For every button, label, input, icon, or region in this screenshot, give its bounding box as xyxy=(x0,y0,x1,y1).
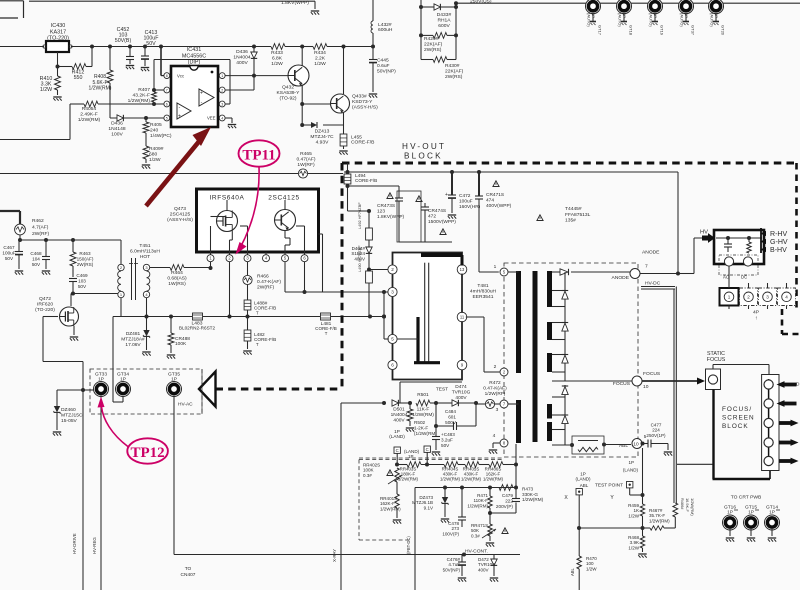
capacitor C476 xyxy=(443,555,467,582)
svg-text:1/2W: 1/2W xyxy=(628,545,639,550)
resistor R466b xyxy=(673,498,695,528)
svg-text:0.68(AS): 0.68(AS) xyxy=(167,276,187,282)
transformer T451 label xyxy=(130,243,160,260)
svg-text:CR471S: CR471S xyxy=(486,192,504,198)
svg-text:50V: 50V xyxy=(5,256,14,261)
abl parallel RC xyxy=(552,436,631,454)
flyback diode D4 xyxy=(562,386,568,395)
wire IC430 adj pin xyxy=(56,52,60,69)
flyback primary bar2 xyxy=(516,400,521,443)
wire focus tap xyxy=(552,380,632,382)
svg-text:CORE-F/B: CORE-F/B xyxy=(351,140,375,146)
capacitor C468 xyxy=(30,240,50,275)
svg-text:2: 2 xyxy=(747,294,750,299)
test point box xyxy=(595,482,645,498)
wire Q432 emitter xyxy=(300,86,304,107)
svg-text:MTZJ18A#: MTZJ18A# xyxy=(121,336,145,342)
resistor RR406S xyxy=(483,462,516,482)
svg-text:1/2W: 1/2W xyxy=(586,566,597,571)
capacitor C467 xyxy=(2,240,23,275)
wire pin11 tap xyxy=(466,317,500,372)
svg-text:CN407: CN407 xyxy=(181,572,196,578)
svg-text:2W(RS): 2W(RS) xyxy=(424,47,442,53)
wire abl node xyxy=(642,448,644,504)
op-amp U1A xyxy=(177,103,191,120)
IC431 pin 5 xyxy=(164,115,170,121)
svg-text:4.93V: 4.93V xyxy=(316,140,330,146)
svg-text:FOCUS: FOCUS xyxy=(707,357,726,363)
svg-text:T: T xyxy=(256,342,259,347)
svg-text:400V: 400V xyxy=(236,60,248,66)
svg-text:(LAND): (LAND) xyxy=(575,477,591,482)
capacitor C478 xyxy=(442,488,466,537)
flyback diode D3 xyxy=(562,355,568,364)
svg-text:7: 7 xyxy=(166,88,168,92)
resistor RR404S xyxy=(440,462,465,482)
wire pin1 net xyxy=(225,74,256,90)
svg-text:1-2K-F: 1-2K-F xyxy=(414,425,428,430)
svg-text:R4054: R4054 xyxy=(82,106,97,112)
op-amp U1B xyxy=(199,89,214,106)
IC431 pin 1 xyxy=(219,73,225,79)
connector GT14 xyxy=(765,505,781,542)
svg-text:250V(US): 250V(US) xyxy=(470,0,492,5)
svg-text:550: 550 xyxy=(74,75,83,81)
fusible resistor R472 xyxy=(476,380,507,413)
svg-text:Q432: Q432 xyxy=(282,85,294,91)
svg-text:R434: R434 xyxy=(314,50,326,56)
svg-text:1/2W: 1/2W xyxy=(314,61,326,67)
svg-text:1/2W: 1/2W xyxy=(628,513,639,518)
svg-text:500V: 500V xyxy=(445,420,457,425)
svg-text:1N4004: 1N4004 xyxy=(391,412,408,418)
connector GT19 xyxy=(648,0,665,36)
svg-text:+: + xyxy=(200,91,203,97)
svg-text:50V: 50V xyxy=(441,443,450,448)
svg-text:GT18: GT18 xyxy=(629,25,634,36)
svg-text:C467: C467 xyxy=(3,245,15,250)
svg-text:R429#: R429# xyxy=(424,36,439,42)
resistor R471 xyxy=(467,488,492,516)
svg-text:2: 2 xyxy=(494,364,497,370)
inductor L490 xyxy=(357,245,372,317)
diode D472 xyxy=(478,555,498,582)
capacitor C452 xyxy=(115,27,134,69)
svg-text:R463: R463 xyxy=(79,251,91,256)
svg-text:1/2W(RM): 1/2W(RM) xyxy=(89,86,112,92)
wire pin2 down xyxy=(229,262,231,317)
variable resistor RR471S xyxy=(471,513,496,547)
svg-text:L492 HF70ZBF: L492 HF70ZBF xyxy=(357,202,362,229)
IC431 pin 6 xyxy=(164,101,170,107)
svg-text:TEST: TEST xyxy=(436,387,448,393)
wire HV-DC xyxy=(641,281,676,504)
flyback diode top xyxy=(552,269,630,275)
dashed border bottom-left xyxy=(216,388,343,391)
svg-text:RH1A: RH1A xyxy=(437,18,451,24)
svg-text:0.47(AF): 0.47(AF) xyxy=(296,157,315,163)
svg-text:GT37: GT37 xyxy=(691,25,696,36)
wire Q432 collector xyxy=(300,45,304,66)
wire L492 column xyxy=(348,209,372,213)
4P pin 1 xyxy=(724,292,734,302)
svg-text:1N4004: 1N4004 xyxy=(233,55,250,61)
IC431 pin 7 xyxy=(164,87,170,93)
svg-text:8: 8 xyxy=(166,74,168,78)
svg-text:KSA539-Y: KSA539-Y xyxy=(277,90,301,96)
inductor L483 xyxy=(179,313,216,331)
wire pin6 net xyxy=(98,103,164,105)
drive transformer box xyxy=(393,253,463,380)
svg-text:1/2W(RM): 1/2W(RM) xyxy=(78,117,101,123)
drive pin 11 xyxy=(457,312,467,322)
callout TP11 arrow xyxy=(236,167,260,255)
drive pin 9 xyxy=(457,360,467,370)
svg-text:474: 474 xyxy=(486,197,494,203)
svg-text:TP11: TP11 xyxy=(242,148,275,164)
wire Q472 gate xyxy=(43,317,85,393)
svg-text:0.47-K(AF): 0.47-K(AF) xyxy=(257,279,281,285)
svg-text:MTZJ4-7C: MTZJ4-7C xyxy=(310,134,334,140)
warning triangle rr471 xyxy=(502,528,508,534)
svg-text:C479: C479 xyxy=(502,493,514,498)
svg-text:103: 103 xyxy=(78,278,86,283)
svg-text:R433: R433 xyxy=(271,50,283,56)
zener DZ413 xyxy=(302,104,343,146)
4P pin 2 xyxy=(744,292,754,302)
svg-text:1W(RS): 1W(RS) xyxy=(168,281,186,287)
svg-text:3: 3 xyxy=(496,407,499,413)
svg-text:250V(1P): 250V(1P) xyxy=(646,433,666,438)
diode D501 xyxy=(391,400,412,423)
wire pin7 to winding xyxy=(508,403,519,405)
svg-text:FOCUS: FOCUS xyxy=(643,371,661,377)
wire hv rail y172 xyxy=(344,170,678,174)
svg-text:43.2K-F: 43.2K-F xyxy=(133,93,150,99)
IC430 KA317 regulator xyxy=(43,23,72,52)
svg-text:R405: R405 xyxy=(150,122,162,128)
flyback rectifier ladder xyxy=(552,272,565,445)
svg-text:2W(RS): 2W(RS) xyxy=(77,262,94,267)
text TEST xyxy=(436,387,448,393)
diode D436 1N4148 xyxy=(108,115,125,138)
text HV-OUT BLOCK xyxy=(402,142,446,161)
svg-text:1/2W(RM): 1/2W(RM) xyxy=(380,506,401,511)
connector GT15 xyxy=(744,505,760,542)
inductor L432 xyxy=(371,0,393,49)
svg-text:11K-F: 11K-F xyxy=(417,407,430,413)
inductor L455 xyxy=(339,125,375,155)
svg-text:2W(RS): 2W(RS) xyxy=(445,74,463,80)
svg-text:GT20: GT20 xyxy=(721,25,726,36)
svg-text:104: 104 xyxy=(32,256,40,261)
drive pin 13 xyxy=(457,265,467,275)
svg-text:R466: R466 xyxy=(257,274,269,280)
connector GT34 xyxy=(116,372,131,397)
drive transformer core xyxy=(425,263,429,363)
connector GT17 xyxy=(586,0,603,36)
svg-text:1/2W(RM): 1/2W(RM) xyxy=(522,497,544,502)
RR402S dashed box xyxy=(359,460,504,541)
svg-text:1/2W(RM): 1/2W(RM) xyxy=(461,476,482,481)
wire drive 13-11-9 xyxy=(461,274,463,362)
svg-text:1: 1 xyxy=(494,264,497,270)
IC431 pin 8 xyxy=(164,73,170,79)
resistor R470 xyxy=(570,528,597,590)
svg-text:1/4W(PC): 1/4W(PC) xyxy=(150,133,172,139)
svg-text:2.49K-F: 2.49K-F xyxy=(80,112,97,118)
wire hvdc to focus block xyxy=(677,463,713,465)
Q473 pin 3 xyxy=(244,252,251,262)
svg-text:Q472: Q472 xyxy=(39,296,51,302)
inductor L482 xyxy=(243,330,276,355)
resistor RR405S xyxy=(461,462,489,482)
svg-text:T4445#: T4445# xyxy=(565,206,582,212)
svg-text:HV-AC: HV-AC xyxy=(178,402,193,408)
resistor R473 xyxy=(499,485,544,502)
svg-text:100V(P): 100V(P) xyxy=(442,531,459,536)
svg-text:100K: 100K xyxy=(175,341,187,347)
wire pin4 T451 down xyxy=(146,298,148,317)
wire pin1 T451 xyxy=(73,293,118,295)
svg-text:R407: R407 xyxy=(138,87,150,93)
svg-text:1P: 1P xyxy=(628,460,634,465)
capacitor CR474S xyxy=(399,203,456,242)
focus screen block outline xyxy=(713,390,771,480)
resistor RR401S xyxy=(380,494,401,524)
capacitor C484 xyxy=(436,404,476,430)
svg-text:CR474S: CR474S xyxy=(428,208,446,214)
svg-text:(ASSY-H/S): (ASSY-H/S) xyxy=(352,105,378,111)
wire y240 xyxy=(20,238,121,242)
svg-text:1/2W(RM): 1/2W(RM) xyxy=(128,98,151,104)
zener DZ473 xyxy=(412,488,449,523)
svg-text:22K(AF): 22K(AF) xyxy=(424,42,443,48)
svg-text:+: + xyxy=(445,192,448,198)
svg-text:IC430: IC430 xyxy=(51,23,65,29)
connector GT18 xyxy=(617,0,634,36)
svg-text:0.3#: 0.3# xyxy=(363,473,372,478)
dashed border right xyxy=(795,163,798,309)
dashed border right notch xyxy=(782,309,800,334)
svg-text:2: 2 xyxy=(221,88,223,92)
svg-text:(AUTO): (AUTO) xyxy=(649,13,654,27)
warning triangle CR473S xyxy=(387,193,393,199)
drive pin 5 xyxy=(388,334,397,343)
svg-text:HV-OUT: HV-OUT xyxy=(402,142,446,151)
text TO CRT PWB xyxy=(731,495,762,501)
svg-text:(FBT-DC): (FBT-DC) xyxy=(406,536,411,554)
transformer T451 xyxy=(118,240,150,300)
svg-text:CORE-F/B: CORE-F/B xyxy=(355,178,377,183)
thick feed wire xyxy=(0,211,20,224)
wire anode link xyxy=(640,272,694,276)
4P connector box xyxy=(720,266,796,309)
svg-text:(LAND): (LAND) xyxy=(623,468,639,473)
svg-text:Q473: Q473 xyxy=(174,206,186,212)
svg-text:400V: 400V xyxy=(393,417,405,423)
wire pin3 T451 to R464 xyxy=(150,267,170,269)
focus block pin 4 xyxy=(764,438,773,447)
svg-text:6.8K: 6.8K xyxy=(272,56,283,62)
flyback core bar xyxy=(533,271,538,442)
wire feedback loop pin7-pin3 xyxy=(152,60,230,107)
svg-text:(TO-92): (TO-92) xyxy=(279,96,296,102)
svg-text:1/2W(RM): 1/2W(RM) xyxy=(440,476,461,481)
wire y554 long xyxy=(174,554,520,556)
inductor L481 xyxy=(315,313,337,336)
svg-text:1: 1 xyxy=(728,294,731,299)
svg-text:FFA87513L: FFA87513L xyxy=(565,212,591,218)
svg-text:L490 HF70ZBF: L490 HF70ZBF xyxy=(357,245,362,272)
transistor Q433 KSD73-Y xyxy=(331,94,379,114)
wire GT34 feed xyxy=(113,317,123,403)
IC431 pin 3 xyxy=(219,101,225,107)
svg-text:11: 11 xyxy=(460,315,465,320)
svg-text:(LAND): (LAND) xyxy=(389,434,405,439)
svg-text:400V(WPP): 400V(WPP) xyxy=(486,203,512,209)
variable resistor RR402S xyxy=(363,463,402,495)
diode D464 xyxy=(351,240,372,271)
resistor R412 xyxy=(58,47,93,82)
abl land box xyxy=(575,472,591,529)
svg-text:ANODE: ANODE xyxy=(612,275,630,281)
svg-text:400V: 400V xyxy=(455,395,467,401)
wire loop box left xyxy=(332,401,386,590)
svg-text:1/2W(RM): 1/2W(RM) xyxy=(412,412,434,418)
svg-text:1P: 1P xyxy=(120,377,126,383)
svg-text:1P: 1P xyxy=(171,377,177,383)
Q473 internal leads xyxy=(211,200,305,252)
svg-text:TO: TO xyxy=(185,566,192,572)
svg-text:R409#: R409# xyxy=(149,146,164,152)
svg-text:R502: R502 xyxy=(414,420,426,425)
static focus box xyxy=(706,351,726,390)
svg-text:1/2W(RM): 1/2W(RM) xyxy=(483,476,504,481)
svg-text:(1/2W(RM): (1/2W(RM) xyxy=(414,431,437,436)
capacitor C469 xyxy=(69,273,88,296)
svg-text:160V(HR): 160V(HR) xyxy=(459,204,481,210)
svg-text:50V(NP): 50V(NP) xyxy=(377,69,396,75)
svg-text:G-HV: G-HV xyxy=(770,239,788,246)
capacitor C413 xyxy=(141,30,159,71)
ground top net xyxy=(311,11,319,15)
svg-text:(DIP): (DIP) xyxy=(188,60,201,66)
inductor L492 xyxy=(357,202,372,240)
svg-text:FOCUS: FOCUS xyxy=(613,381,631,387)
svg-text:R462: R462 xyxy=(32,218,44,224)
svg-text:MTZJ15C: MTZJ15C xyxy=(61,413,83,419)
svg-text:X-RAY: X-RAY xyxy=(332,549,337,562)
annotation red arrow xyxy=(146,127,211,206)
fusible resistor R462 xyxy=(15,218,50,242)
wire Q472 drain xyxy=(71,294,74,307)
svg-text:C469: C469 xyxy=(76,273,88,278)
focus screen pin column xyxy=(762,375,779,471)
wire CR471S to pin5fb xyxy=(479,271,499,273)
svg-text:DZ481: DZ481 xyxy=(126,331,141,337)
svg-text:R430#: R430# xyxy=(445,63,460,69)
svg-text:2SC4125: 2SC4125 xyxy=(268,195,300,202)
svg-text:3: 3 xyxy=(766,294,769,299)
Q473 label xyxy=(167,206,193,223)
resistor R409 xyxy=(142,146,164,169)
resistor CR488 xyxy=(167,317,190,359)
svg-text:50V: 50V xyxy=(78,284,87,289)
svg-text:240: 240 xyxy=(150,128,158,134)
svg-text:T481: T481 xyxy=(477,283,488,289)
wire pin5 to winding xyxy=(508,271,519,273)
warning triangle mid xyxy=(537,215,543,221)
T451 pin 2 xyxy=(118,264,124,270)
wire main rail y47 left xyxy=(0,46,44,48)
capacitor C483 xyxy=(432,403,455,456)
svg-text:3: 3 xyxy=(391,290,394,295)
connector GT35 xyxy=(167,372,182,397)
IC431 pin 4 xyxy=(219,115,225,121)
wire pin7 out xyxy=(508,403,518,405)
wire main rail y47 mid xyxy=(71,46,271,48)
Q473 pin 5 xyxy=(282,252,289,262)
svg-text:T: T xyxy=(256,311,259,316)
wire winding to divider xyxy=(514,444,518,490)
wire rail2 top xyxy=(454,1,800,5)
svg-text:150(AF): 150(AF) xyxy=(77,256,94,261)
drive pin 6 xyxy=(388,360,397,369)
node ANODE xyxy=(612,250,661,282)
svg-text:6: 6 xyxy=(391,363,394,368)
inductor L488 xyxy=(244,300,276,330)
focus screen text xyxy=(722,406,755,430)
svg-text:6: 6 xyxy=(166,102,168,106)
svg-text:22K(AF): 22K(AF) xyxy=(445,69,464,75)
svg-text:B-HV: B-HV xyxy=(770,247,787,254)
resistor R405 xyxy=(143,116,172,146)
svg-text:123: 123 xyxy=(377,208,385,214)
svg-text:BL02RN2-R6ST2: BL02RN2-R6ST2 xyxy=(179,326,216,331)
svg-text:4mH/830uH: 4mH/830uH xyxy=(470,289,497,295)
thick wire primary top xyxy=(421,255,462,266)
T451 pin 3 xyxy=(143,264,149,270)
svg-text:(TO-220): (TO-220) xyxy=(47,36,69,42)
RGB outputs xyxy=(760,228,788,254)
capacitor CR473S xyxy=(348,186,405,242)
T451 pin 1 xyxy=(118,291,124,297)
svg-text:CR473S: CR473S xyxy=(377,203,395,209)
flyback dashed bottom ext xyxy=(359,457,504,459)
wire R471 to x516 xyxy=(490,488,516,514)
text TO CN407 xyxy=(181,566,196,578)
svg-text:D474: D474 xyxy=(455,384,467,390)
svg-text:3: 3 xyxy=(221,102,223,106)
zener DZ481 xyxy=(121,317,150,356)
resistor R434 xyxy=(302,44,373,68)
wire pin5 pin6 down xyxy=(285,262,307,294)
svg-text:1/2W: 1/2W xyxy=(149,157,161,163)
wire Q473 emitter out xyxy=(285,234,389,292)
text X Y xyxy=(564,495,614,501)
svg-text:330K-G: 330K-G xyxy=(522,492,538,497)
resistor R410 xyxy=(40,67,62,101)
wire drive pin2 xyxy=(367,268,389,272)
wire y390 to GT33 xyxy=(83,389,94,391)
capacitor C445 xyxy=(369,47,396,98)
connector dashed box xyxy=(90,369,202,414)
svg-text:GT19: GT19 xyxy=(660,25,665,36)
4P pin 4 xyxy=(782,292,792,302)
svg-text:50V(NP): 50V(NP) xyxy=(443,567,461,572)
wire Vcc to IC431 pin8 xyxy=(161,47,164,76)
